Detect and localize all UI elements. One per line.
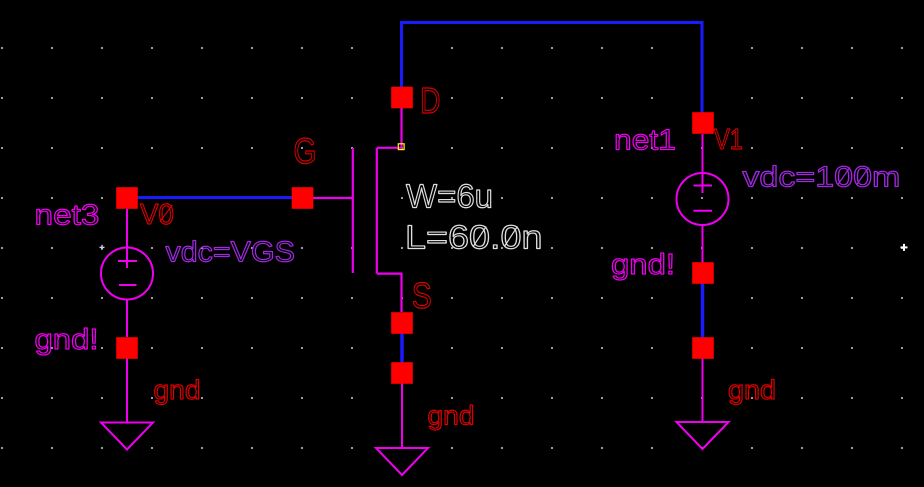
V0 minus / gnd pin <box>116 337 138 359</box>
voltage source V1 <box>677 134 729 263</box>
svg-text:vdc=100m: vdc=100m <box>742 162 900 194</box>
wire V1 minus to gnd (right) <box>701 273 705 348</box>
svg-text:gnd: gnd <box>154 375 201 405</box>
svg-text:D: D <box>420 80 441 121</box>
svg-text:gnd: gnd <box>428 401 475 431</box>
ground symbol right <box>677 359 729 450</box>
svg-text:gnd: gnd <box>728 375 776 405</box>
origin marker left <box>100 245 105 250</box>
V1 minus pin <box>692 262 714 284</box>
voltage source V0 <box>101 209 153 337</box>
svg-text:net3: net3 <box>35 199 100 231</box>
ground symbol left <box>101 358 153 450</box>
svg-text:S: S <box>412 275 432 316</box>
wire net3: V0 to gate <box>127 196 302 199</box>
gnd pin right <box>692 337 714 359</box>
svg-text:L=60.0n: L=60.0n <box>405 218 543 255</box>
source pin <box>391 312 413 334</box>
svg-text:vdc=VGS: vdc=VGS <box>166 237 296 269</box>
origin marker right <box>901 244 908 251</box>
wire source to gnd (middle) <box>400 323 404 373</box>
V0 plus pin <box>116 187 138 209</box>
selected point marker (yellow) <box>398 144 404 150</box>
gnd pin middle <box>391 362 413 384</box>
svg-text:net1: net1 <box>614 125 676 157</box>
transistor M0 (nmos) <box>302 108 402 312</box>
svg-text:G: G <box>294 130 317 171</box>
gate pin <box>292 187 314 209</box>
pin squares (red) <box>116 87 714 384</box>
V1 plus pin <box>692 112 714 134</box>
drain pin <box>391 87 413 109</box>
svg-text:gnd!: gnd! <box>611 249 675 281</box>
svg-text:V0: V0 <box>140 199 174 231</box>
svg-text:V1: V1 <box>714 124 743 156</box>
wire net: top blue wire from drain to V1 <box>402 23 703 113</box>
svg-text:W=6u: W=6u <box>406 177 493 214</box>
ground symbol middle <box>376 383 428 475</box>
svg-text:gnd!: gnd! <box>35 324 99 356</box>
